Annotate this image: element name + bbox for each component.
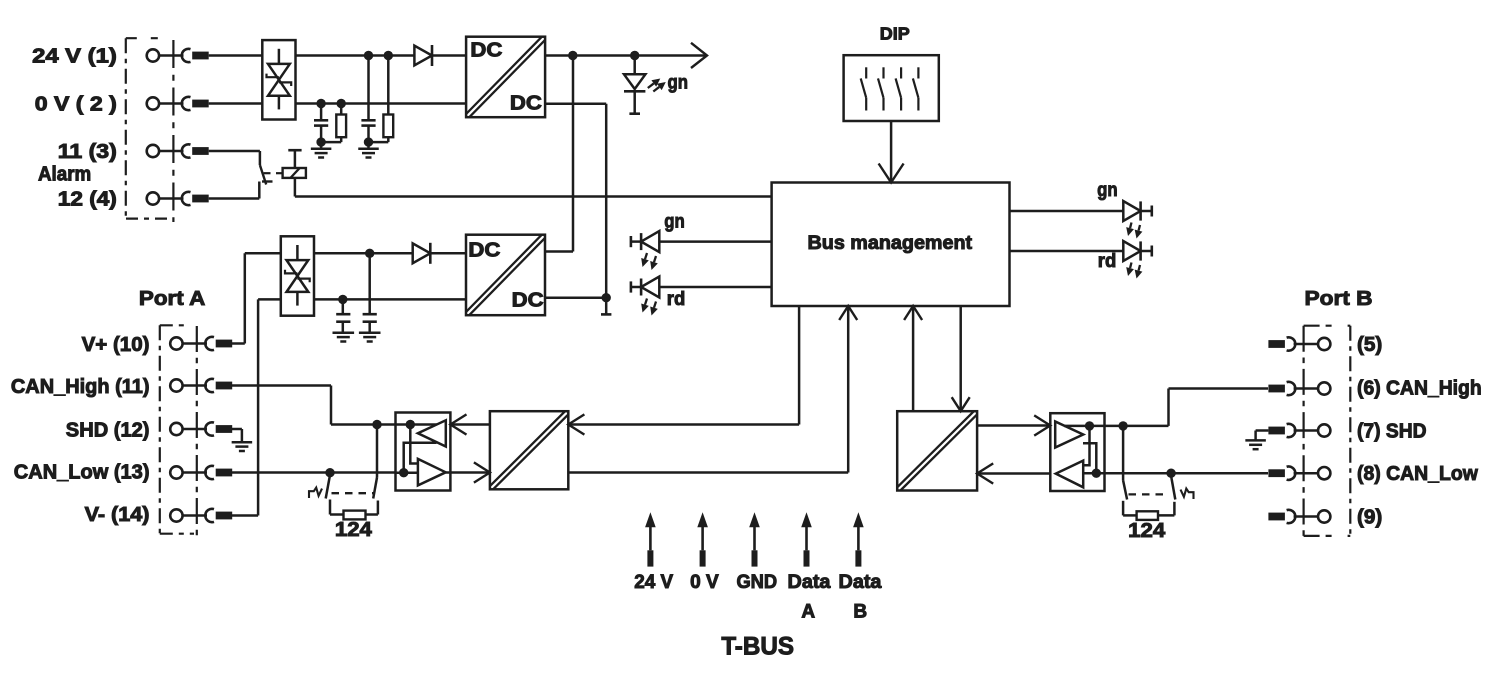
svg-text:DIP: DIP <box>880 24 910 44</box>
svg-text:T-BUS: T-BUS <box>721 632 794 660</box>
svg-text:rd: rd <box>667 288 686 310</box>
svg-text:24 V (1): 24 V (1) <box>32 46 117 68</box>
svg-text:(6) CAN_High: (6) CAN_High <box>1357 378 1482 400</box>
svg-text:GND: GND <box>736 572 777 593</box>
svg-text:DC: DC <box>512 290 544 312</box>
svg-text:DC: DC <box>468 239 500 261</box>
svg-text:(7) SHD: (7) SHD <box>1357 421 1427 443</box>
svg-text:(5): (5) <box>1357 334 1382 356</box>
svg-text:124: 124 <box>335 519 373 541</box>
svg-text:gn: gn <box>1097 179 1118 201</box>
svg-text:DC: DC <box>510 93 542 115</box>
svg-text:0 V: 0 V <box>690 572 719 593</box>
svg-text:24 V: 24 V <box>634 572 673 593</box>
svg-text:Port A: Port A <box>139 288 205 310</box>
svg-text:CAN_Low (13): CAN_Low (13) <box>14 462 150 484</box>
svg-text:(9): (9) <box>1357 507 1382 529</box>
svg-text:rd: rd <box>1098 250 1117 272</box>
svg-text:CAN_High (11): CAN_High (11) <box>11 376 150 398</box>
svg-text:A: A <box>801 601 815 622</box>
svg-text:124: 124 <box>1128 520 1166 542</box>
svg-text:Alarm: Alarm <box>38 164 91 186</box>
svg-text:11 (3): 11 (3) <box>58 141 117 163</box>
svg-text:B: B <box>853 601 867 622</box>
svg-text:Bus management: Bus management <box>808 233 973 254</box>
svg-text:gn: gn <box>668 72 689 94</box>
svg-text:12 (4): 12 (4) <box>58 189 117 211</box>
svg-text:Data: Data <box>839 572 882 593</box>
svg-text:DC: DC <box>470 40 502 62</box>
svg-text:0 V ( 2 ): 0 V ( 2 ) <box>35 94 117 116</box>
svg-text:gn: gn <box>664 210 685 232</box>
svg-text:(8) CAN_Low: (8) CAN_Low <box>1357 463 1478 485</box>
svg-text:SHD (12): SHD (12) <box>66 419 150 441</box>
svg-text:V- (14): V- (14) <box>85 504 150 526</box>
svg-text:Data: Data <box>788 572 831 593</box>
svg-text:Port B: Port B <box>1305 288 1373 310</box>
svg-text:V+ (10): V+ (10) <box>82 334 150 356</box>
